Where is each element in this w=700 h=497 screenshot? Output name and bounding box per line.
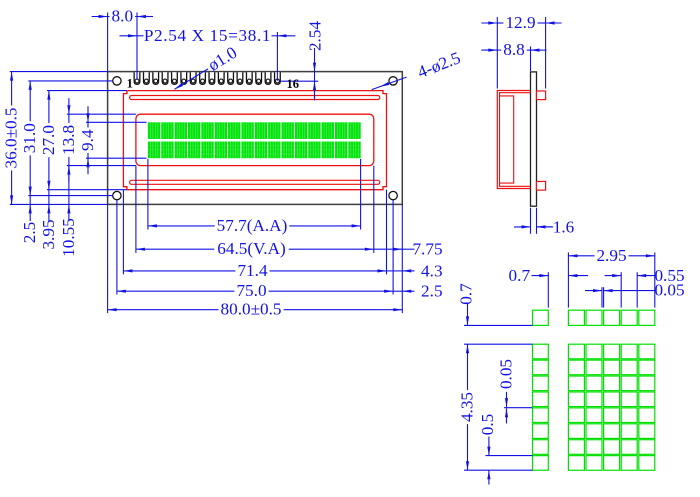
ext lines left side bbox=[10, 72, 147, 205]
leader 4-ø2.5 bbox=[372, 48, 463, 89]
svg-text:4-ø2.5: 4-ø2.5 bbox=[415, 48, 463, 82]
svg-text:10.55: 10.55 bbox=[59, 218, 78, 257]
dim 10.55 left bbox=[59, 166, 78, 257]
svg-text:31.0: 31.0 bbox=[20, 123, 39, 153]
dim 0.55 dot width bbox=[605, 266, 685, 285]
dim 4.3 right bbox=[387, 261, 443, 280]
svg-text:13.8: 13.8 bbox=[59, 125, 78, 155]
svg-text:4.35: 4.35 bbox=[458, 392, 477, 422]
svg-text:80.0±0.5: 80.0±0.5 bbox=[221, 300, 282, 319]
dim 12.9 bbox=[481, 13, 561, 32]
svg-text:0.05: 0.05 bbox=[497, 359, 516, 389]
svg-text:0.7: 0.7 bbox=[457, 283, 476, 305]
dim 2.5 right bbox=[393, 282, 442, 301]
side view bezel frame bbox=[497, 91, 530, 189]
dim 0.5 dot height bbox=[478, 414, 497, 485]
svg-text:9.4: 9.4 bbox=[78, 129, 97, 151]
svg-text:P2.54 X 15=38.1: P2.54 X 15=38.1 bbox=[144, 26, 271, 45]
svg-text:2.54: 2.54 bbox=[305, 21, 324, 51]
svg-text:7.75: 7.75 bbox=[412, 240, 442, 259]
dim 71.4 bbox=[123, 261, 386, 280]
dim 64.5(V.A) bbox=[136, 239, 374, 258]
dim 31.0 bbox=[20, 81, 39, 196]
dim 75.0 bbox=[117, 281, 393, 300]
dim 2.5 left bbox=[20, 196, 39, 244]
LCD module front view outline bbox=[108, 72, 403, 205]
dim 36.0±0.5 bbox=[2, 72, 21, 205]
pin label 16 bbox=[286, 77, 299, 91]
leader ø1.0 bbox=[175, 43, 241, 89]
bottom zebra slot bbox=[130, 180, 380, 184]
svg-text:3.95: 3.95 bbox=[39, 219, 58, 249]
ext lines detail top bbox=[548, 252, 655, 307]
ext lines detail left bbox=[464, 325, 533, 470]
mounting hole bottom-left bbox=[113, 191, 121, 199]
svg-text:0.05: 0.05 bbox=[654, 281, 684, 300]
mounting hole top-right bbox=[389, 77, 397, 85]
svg-text:2.95: 2.95 bbox=[596, 246, 626, 265]
red bezel outline (71.4 x 27.0) bbox=[123, 91, 386, 190]
ext lines bottom bbox=[108, 159, 403, 313]
detail: neighbour row of 5 dots bbox=[568, 310, 654, 325]
dim 27.0 bbox=[39, 91, 58, 190]
svg-text:57.7(A.A): 57.7(A.A) bbox=[217, 216, 288, 235]
side view top tab bbox=[537, 91, 546, 100]
dim 0.7 gap bbox=[509, 266, 588, 285]
dim 4.35 bbox=[458, 344, 477, 470]
svg-text:ø1.0: ø1.0 bbox=[205, 43, 241, 75]
ext lines side view bbox=[497, 17, 545, 234]
svg-text:75.0: 75.0 bbox=[236, 281, 266, 300]
dim 8.0 bbox=[92, 7, 153, 26]
svg-text:8.8: 8.8 bbox=[503, 40, 524, 59]
dim 13.8 bbox=[59, 98, 78, 181]
dim 57.7(A.A) bbox=[148, 216, 361, 235]
mounting hole top-left bbox=[113, 77, 121, 85]
dim 8.8 bbox=[481, 40, 546, 59]
dim 80.0±0.5 bbox=[108, 300, 403, 319]
dim 1.6 bbox=[514, 217, 575, 236]
dim 7.75 right bbox=[374, 240, 443, 259]
pin header pins 1-16 bbox=[134, 72, 280, 84]
dim P2.54 X 15=38.1 bbox=[120, 26, 296, 45]
svg-text:0.5: 0.5 bbox=[478, 414, 497, 435]
svg-text:12.9: 12.9 bbox=[505, 13, 535, 32]
svg-text:36.0±0.5: 36.0±0.5 bbox=[2, 108, 21, 169]
pin label 1 bbox=[127, 77, 133, 91]
svg-text:4.3: 4.3 bbox=[421, 261, 442, 280]
side view PCB bbox=[531, 72, 537, 206]
top zebra slot bbox=[130, 96, 380, 100]
svg-text:2.5: 2.5 bbox=[20, 222, 39, 243]
dim 2.95 bbox=[568, 246, 654, 265]
svg-text:1: 1 bbox=[127, 77, 133, 91]
dim 0.05 vertical gap bbox=[497, 359, 516, 424]
character cells 16x2 active area bbox=[148, 122, 361, 158]
dim 0.05 dot gap horizontal bbox=[585, 281, 685, 300]
svg-text:2.5: 2.5 bbox=[421, 282, 442, 301]
svg-text:1.6: 1.6 bbox=[553, 217, 575, 236]
svg-text:64.5(V.A): 64.5(V.A) bbox=[217, 239, 285, 258]
detail: neighbour column square bbox=[533, 310, 549, 325]
dim 0.7 vertical gap bbox=[457, 283, 476, 326]
ext lines top (module left, pin1, pin16, pin row) bbox=[108, 13, 319, 82]
display window V.A. 64.5x13.8 bbox=[136, 114, 374, 165]
side view bottom tab bbox=[537, 181, 546, 190]
svg-text:8.0: 8.0 bbox=[112, 7, 133, 26]
detail: neighbour column 8 dots bbox=[533, 344, 549, 470]
svg-text:71.4: 71.4 bbox=[237, 261, 267, 280]
dim 3.95 left bbox=[39, 190, 58, 250]
svg-text:16: 16 bbox=[286, 77, 299, 91]
svg-text:0.7: 0.7 bbox=[509, 266, 531, 285]
mounting hole bottom-right bbox=[389, 191, 397, 199]
svg-text:27.0: 27.0 bbox=[39, 125, 58, 155]
dim 9.4 bbox=[78, 106, 97, 174]
detail: character 5x8 dot grid bbox=[568, 344, 654, 470]
dim 2.54 pin row offset bbox=[305, 21, 324, 101]
